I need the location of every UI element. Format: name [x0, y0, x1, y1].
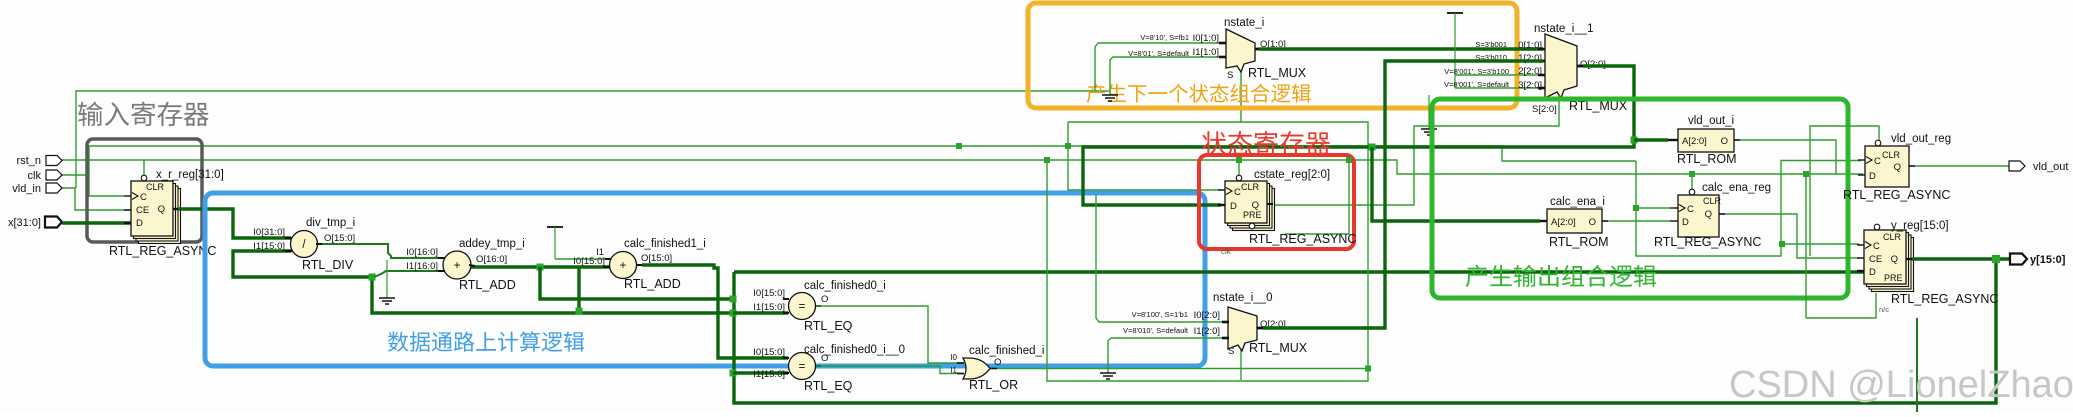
junction at (1349,160) [1346, 157, 1352, 163]
svg-text:calc_finished1_i: calc_finished1_i [624, 238, 706, 250]
svg-text:RTL_ROM: RTL_ROM [1677, 152, 1737, 166]
wire rst_n branch to cstate_reg CLR [1238, 160, 1240, 177]
label 产生下一个状态组合逻辑 (next-state logic) [1087, 84, 1311, 103]
wire x_r_reg Q to div I0 [178, 209, 291, 238]
wire junction fan to addey I1 [374, 271, 443, 277]
svg-text:3[2:0]: 3[2:0] [1518, 80, 1542, 91]
svg-text:CLR: CLR [1882, 150, 1901, 160]
wire bottom-right exit [1916, 318, 1918, 412]
svg-text:S: S [1227, 70, 1233, 81]
rom vld_out_i [1668, 115, 1740, 166]
wire vertical link x=579 [577, 267, 580, 311]
svg-text:nstate_i__1: nstate_i__1 [1534, 23, 1593, 35]
svg-text:O[16:0]: O[16:0] [476, 254, 507, 265]
svg-text:RTL_MUX: RTL_MUX [1248, 66, 1307, 80]
region box next-state (orange) [1028, 3, 1517, 108]
wire vld_out_i O to vld_out_reg D [1740, 140, 1836, 174]
svg-text:I0[2:0]: I0[2:0] [1194, 310, 1220, 321]
wire cstate riser to nstate_i__0 I0 [1096, 194, 1228, 322]
svg-text:I1: I1 [950, 366, 957, 375]
svg-text:RTL_OR: RTL_OR [969, 378, 1018, 392]
svg-text:I1[15:0]: I1[15:0] [753, 369, 785, 380]
junction at (1636,208) [1633, 205, 1639, 211]
svg-text:div_tmp_i: div_tmp_i [306, 217, 355, 229]
svg-text:calc_ena_reg: calc_ena_reg [1702, 182, 1771, 194]
rom calc_ena_i [1540, 196, 1609, 249]
svg-text:PRE: PRE [1884, 273, 1903, 283]
svg-text:V=8'001', S=3'b100: V=8'001', S=3'b100 [1444, 67, 1509, 76]
wire constant to input3 [1455, 87, 1543, 89]
svg-text:D: D [136, 218, 143, 229]
wire rst_n branch to calc_ena_reg CLR [1691, 174, 1693, 191]
wire div O to addey I0 [318, 244, 443, 258]
svg-text:calc_finished0_i: calc_finished0_i [804, 280, 886, 292]
svg-text:C: C [1874, 156, 1881, 167]
wire addey O to calc_finished1 I0 [471, 265, 609, 268]
wire nstate_i S stem [1240, 70, 1242, 122]
svg-text:S: S [1228, 346, 1234, 357]
svg-text:vld_out: vld_out [2033, 161, 2068, 173]
svg-text:addey_tmp_i: addey_tmp_i [459, 238, 525, 250]
constant-1 tee for calc_finished1 I1 [547, 227, 563, 259]
wire vld_in to x_r_reg CE [61, 188, 131, 210]
ground below addey fan [379, 260, 395, 304]
wire nstate_i__1 O to cstate D [1083, 66, 1634, 205]
junction at (1782,244) [1779, 241, 1785, 247]
svg-text:C: C [140, 192, 147, 203]
svg-text:clk: clk [1221, 247, 1232, 256]
output port y[15:0] [2010, 254, 2066, 267]
junction at (1372,147) [1369, 144, 1376, 151]
svg-text:I1[15:0]: I1[15:0] [253, 241, 285, 252]
svg-text:S[2:0]: S[2:0] [1532, 104, 1557, 115]
input port clk [28, 170, 62, 182]
register y_reg[15:0] [1857, 220, 1998, 314]
svg-text:RTL_EQ: RTL_EQ [804, 319, 853, 333]
wire branch to calc_ena_i A [1372, 147, 1540, 221]
wire OR output to state muxes [997, 122, 1368, 369]
svg-text:A[2:0]: A[2:0] [1551, 217, 1576, 228]
input port x[31:0] [8, 217, 62, 230]
junction at (579,311) [576, 308, 583, 315]
input port rst_n [17, 155, 62, 167]
svg-text:n/c: n/c [1879, 305, 1889, 314]
mux nstate_i [1128, 17, 1307, 81]
wire EQ1 I1 stub [733, 311, 788, 314]
wire clk branch to x_r_reg C [89, 175, 124, 196]
wire pre hook [1806, 293, 1876, 318]
svg-text:A[2:0]: A[2:0] [1682, 136, 1707, 147]
wire clk distribution net [61, 146, 1636, 175]
wire to EQ2 I1 [733, 371, 788, 374]
svg-text:C: C [1873, 241, 1880, 252]
wire calc_ena_i O to calc_ena_reg D [1608, 220, 1670, 222]
svg-text:CSDN @LionelZhao: CSDN @LionelZhao [1729, 364, 2073, 406]
svg-text:RTL_REG_ASYNC: RTL_REG_ASYNC [1654, 235, 1761, 249]
svg-text:O: O [821, 294, 828, 305]
svg-text:Q: Q [158, 204, 165, 215]
svg-text:CLR: CLR [1883, 232, 1902, 242]
wire y feedback loop [734, 259, 1996, 403]
junction at (1692,174) [1689, 171, 1695, 177]
wire riser to nstate_i I0 [1095, 43, 1225, 91]
region box state-register (red) [1199, 155, 1354, 249]
svg-text:I1[2:0]: I1[2:0] [1194, 326, 1220, 337]
input port vld_in [12, 183, 62, 195]
svg-text:vld_out_i: vld_out_i [1688, 115, 1734, 127]
wire ground riser to nstate_i I1 [1110, 57, 1225, 95]
watermark CSDN @LionelZhao [1729, 364, 2073, 406]
wire rst_n branch to cstate_reg PRE [1285, 160, 1349, 234]
svg-text:D: D [1869, 267, 1876, 278]
ground under nstate_i I1 riser [1102, 95, 1118, 101]
svg-text:I0[31:0]: I0[31:0] [253, 227, 285, 238]
junction at (733,373) [730, 370, 737, 377]
junction at (959,146) [956, 143, 962, 149]
register calc_ena_reg [1654, 182, 1771, 249]
junction at (1634,140) [1631, 137, 1638, 144]
wire pre feed vertical x=1806 [1805, 174, 1807, 318]
svg-text:CE: CE [136, 205, 149, 216]
svg-text:+: + [453, 258, 460, 272]
svg-text:y[15:0]: y[15:0] [2030, 254, 2066, 266]
svg-text:C: C [1234, 187, 1241, 198]
svg-text:I0[15:0]: I0[15:0] [573, 256, 605, 267]
junction at (540,267) [537, 264, 544, 271]
svg-text:rst_n: rst_n [17, 155, 41, 167]
wire vld_out_reg Q to port [1915, 165, 2009, 167]
region box input-register (gray) [87, 139, 202, 242]
svg-text:Q: Q [1705, 209, 1712, 220]
svg-text:vld_out_reg: vld_out_reg [1891, 133, 1951, 145]
svg-text:I0[15:0]: I0[15:0] [753, 347, 785, 358]
svg-text:=: = [799, 361, 806, 373]
svg-text:O: O [994, 357, 1001, 368]
svg-text:S=3'b001: S=3'b001 [1475, 40, 1507, 49]
wire nstate_i__0 S net [1241, 349, 1368, 381]
svg-text:RTL_ROM: RTL_ROM [1549, 235, 1609, 249]
svg-text:RTL_REG_ASYNC: RTL_REG_ASYNC [1249, 232, 1356, 246]
wire vld_in feedback net (y=91) [76, 91, 1109, 188]
svg-text:x_r_reg[31:0]: x_r_reg[31:0] [156, 169, 224, 181]
svg-text:I1[15:0]: I1[15:0] [753, 302, 785, 313]
junction at (1996,259) [1992, 255, 2000, 263]
svg-text:I0[15:0]: I0[15:0] [753, 288, 785, 299]
svg-text:C: C [1687, 204, 1694, 215]
svg-text:RTL_ADD: RTL_ADD [459, 278, 516, 292]
svg-text:D: D [1230, 201, 1237, 212]
wire nstate_i__1 S net from cstate Q [1273, 95, 1559, 205]
svg-text:=: = [799, 301, 806, 313]
svg-text:x[31:0]: x[31:0] [8, 217, 41, 229]
or-gate calc_finished_i [950, 345, 1044, 392]
adder calc_finished1_i [573, 238, 706, 291]
wire junction to calc_finished chain (y=313) [372, 277, 733, 313]
svg-text:V=8'001', S=default: V=8'001', S=default [1444, 80, 1510, 89]
svg-text:CLR: CLR [1241, 182, 1260, 192]
svg-text:O: O [1721, 136, 1728, 147]
svg-text:Q: Q [1894, 162, 1901, 173]
output port vld_out [2009, 161, 2068, 173]
wire x input bus to D [62, 221, 131, 224]
svg-text:RTL_REG_ASYNC: RTL_REG_ASYNC [109, 244, 216, 258]
svg-text:CLR: CLR [1703, 196, 1722, 206]
wire y_reg C feed [1782, 244, 1860, 245]
region box output-logic (green) [1432, 99, 1848, 298]
wire ground riser nstate_i__0 I1 [1108, 338, 1228, 373]
register x_r_reg[31:0] [109, 169, 224, 258]
wire rst vertical x=1810 (CLR fan) [1810, 126, 1879, 256]
region box datapath (blue) [205, 193, 1205, 366]
wire constant to calc_finished1 I1 [555, 258, 611, 260]
junction at (1047,160) [1044, 157, 1050, 163]
junction at (733,313) [730, 310, 737, 317]
wire rst_n distribution net [61, 160, 1863, 174]
svg-text:V=8'010', S=default: V=8'010', S=default [1123, 326, 1189, 335]
svg-text:nstate_i: nstate_i [1224, 17, 1264, 29]
constant tee for nstate_i__1 [1447, 13, 1463, 88]
wire nstate_i O to nstate_i__1 input0 [1259, 47, 1543, 50]
register vld_out_reg [1843, 133, 1951, 202]
ground stem right of orange box [1421, 95, 1437, 135]
junction at (733,299) [730, 296, 737, 303]
label 数据通路上计算逻辑 (datapath calc logic) [388, 331, 584, 351]
svg-text:I0[16:0]: I0[16:0] [406, 247, 438, 258]
junction at (372,277) [369, 274, 376, 281]
svg-text:I0: I0 [950, 353, 957, 362]
svg-text:O: O [821, 353, 828, 364]
label 产生输出组合逻辑 (output logic) [1466, 265, 1656, 287]
svg-text:V=8'10', S=fb1: V=8'10', S=fb1 [1140, 33, 1189, 42]
wire calc_ena_reg Q to y_reg CE [1725, 214, 1860, 258]
svg-text:clk: clk [28, 170, 42, 182]
svg-text:I1[1:0]: I1[1:0] [1193, 47, 1219, 58]
svg-text:V=8'01', S=default: V=8'01', S=default [1128, 49, 1190, 58]
svg-text:CE: CE [1869, 254, 1882, 265]
svg-text:+: + [620, 260, 627, 272]
wire y_reg Q to port [1912, 257, 2010, 260]
wire constant to input2 [1455, 74, 1543, 76]
svg-text:RTL_REG_ASYNC: RTL_REG_ASYNC [1891, 292, 1998, 306]
label 输入寄存器 (input register) [78, 102, 209, 127]
svg-text:RTL_REG_ASYNC: RTL_REG_ASYNC [1843, 188, 1950, 202]
wire clk branch to cstate_reg C [1068, 122, 1221, 190]
wire rst branch down right [1047, 160, 1240, 381]
wire rst_n branch to x_r_reg CLR [143, 160, 145, 175]
junction at (1368,368.5) [1365, 366, 1371, 372]
svg-text:I1[16:0]: I1[16:0] [406, 261, 438, 272]
adder addey_tmp_i [406, 238, 525, 292]
comparator calc_finished0_i__0 [753, 344, 905, 393]
wire branch to vld_out_i A [1634, 138, 1668, 141]
svg-text:O[15:0]: O[15:0] [641, 253, 672, 264]
svg-text:CLR: CLR [146, 182, 165, 192]
svg-text:D: D [1682, 217, 1689, 228]
comparator calc_finished0_i [753, 280, 886, 333]
label 状态寄存器 (state register) [1202, 131, 1330, 155]
svg-text:cstate_reg[2:0]: cstate_reg[2:0] [1254, 169, 1330, 181]
svg-text:O: O [1589, 217, 1596, 228]
wire branch down to EQ row (x=540) [540, 267, 733, 299]
mux nstate_i__1 [1444, 23, 1628, 115]
svg-text:I0[1:0]: I0[1:0] [1193, 33, 1219, 44]
junction at (1068,146) [1065, 143, 1071, 149]
wire clk branch to calc_ena_reg C [1636, 207, 1670, 209]
wire clk vertical x=1636 [1636, 161, 1861, 257]
junction at (1239,160) [1236, 157, 1242, 163]
svg-text:V=8'100', S=1'b1: V=8'100', S=1'b1 [1132, 310, 1188, 319]
wire y feedback top edge to y_reg D [734, 270, 1864, 273]
svg-text:RTL_DIV: RTL_DIV [302, 258, 354, 272]
svg-text:nstate_i__0: nstate_i__0 [1213, 292, 1272, 304]
register cstate_reg[2:0] [1218, 169, 1356, 256]
wire EQ2 O to OR I1 [816, 366, 963, 374]
divider div_tmp_i [253, 217, 355, 272]
wire EQ1 O to OR I0 [816, 306, 963, 363]
junction at (1806,174) [1803, 171, 1809, 177]
svg-text:RTL_EQ: RTL_EQ [804, 379, 853, 393]
wire nstate_i__0 O to nstate_i__1 input1 [1263, 61, 1543, 328]
svg-text:vld_in: vld_in [12, 183, 41, 195]
svg-text:calc_ena_i: calc_ena_i [1550, 196, 1605, 208]
wire y feedback to div I1 [233, 251, 372, 277]
svg-text:Q: Q [1891, 254, 1898, 265]
svg-text:PRE: PRE [1243, 210, 1262, 220]
svg-text:O[15:0]: O[15:0] [324, 233, 355, 244]
ground below nstate_i__0 [1100, 373, 1116, 379]
svg-text:RTL_MUX: RTL_MUX [1249, 341, 1308, 355]
mux nstate_i__0 [1123, 292, 1308, 357]
svg-text:calc_finished_i: calc_finished_i [969, 345, 1044, 357]
svg-text:RTL_ADD: RTL_ADD [624, 277, 681, 291]
svg-text:y_reg[15:0]: y_reg[15:0] [1891, 220, 1949, 232]
svg-text:calc_finished0_i__0: calc_finished0_i__0 [804, 344, 905, 356]
svg-text:D: D [1869, 171, 1876, 182]
wire calc_finished1 O to EQ2 I0 [642, 265, 788, 358]
